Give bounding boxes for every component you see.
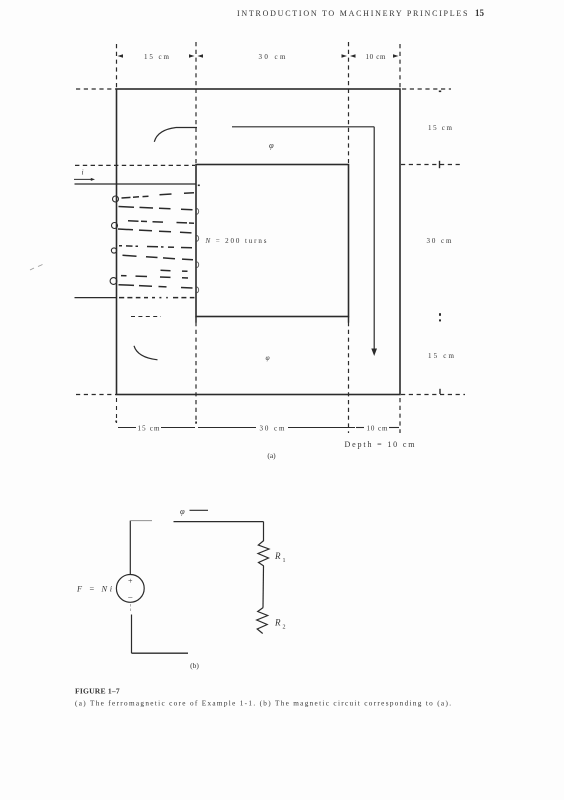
dashed extension right at window top y=164.5	[401, 164, 463, 166]
wire right down to R1	[263, 522, 265, 541]
flux path arrowhead	[371, 349, 377, 357]
hatch row 2	[119, 206, 135, 209]
coil right-side bump 3	[197, 262, 199, 268]
svg-text:FIGURE 1–7: FIGURE 1–7	[75, 687, 120, 696]
bottom dimension line segments	[118, 427, 399, 429]
svg-text:10 cm: 10 cm	[367, 425, 389, 433]
svg-text:−: −	[128, 593, 133, 603]
dashed extension line top at x=196	[195, 42, 197, 163]
dashed extension left at window bottom y=316.5	[131, 316, 161, 318]
hatch row 7	[161, 269, 171, 271]
wire top main segment	[174, 521, 264, 523]
coil turn circle 3	[111, 248, 116, 253]
svg-text:+: +	[128, 577, 133, 586]
hatch row 8	[121, 275, 127, 277]
dashed extension bottom at x=348.5	[348, 322, 350, 433]
wire source top to corner	[129, 521, 131, 575]
top dimension arrowheads	[118, 54, 399, 57]
wire R1 to R2	[262, 566, 265, 608]
coil right-side bump 2	[197, 236, 199, 242]
coil right-side bump 4	[197, 287, 199, 293]
wire bottom	[132, 652, 189, 654]
right dimension tick at y=394.5	[439, 389, 441, 394]
coil turn circle 2	[112, 223, 118, 229]
flux path arc top-left	[154, 128, 176, 142]
dashed extension line top at x=116.5	[116, 44, 118, 88]
svg-text:(a): (a)	[267, 451, 276, 460]
coil top lead wire	[75, 183, 197, 185]
reluctance R2 zigzag	[257, 608, 268, 634]
coil bottom lead wire	[75, 297, 118, 299]
right dimension tick at y=164.5	[439, 161, 441, 168]
core outer boundary	[117, 89, 401, 395]
wire faint below source	[130, 604, 132, 613]
coil hatching	[118, 193, 195, 298]
dashed extension left at window top y=165.4	[75, 164, 195, 166]
hatch row 6	[123, 254, 137, 257]
flux path top segment short	[176, 127, 197, 129]
dashed extension left at bottom edge y=394.5	[76, 394, 116, 396]
reluctance R1 zigzag	[258, 541, 269, 567]
svg-text:φ: φ	[269, 140, 274, 150]
dashed extension bottom at x=400	[399, 398, 401, 433]
current arrow	[74, 178, 93, 180]
flux arrow circuit	[190, 509, 209, 511]
right dimension tick at y=89	[439, 91, 441, 93]
flux path top segment long	[232, 126, 374, 128]
window right edge overshoot	[348, 317, 350, 323]
flux path right vertical	[373, 127, 375, 353]
dashed extension bottom at x=196	[195, 322, 197, 424]
bottom dimension end ticks	[115, 421, 117, 423]
dashed extension right at bottom edge y=394.5	[401, 394, 465, 396]
dashed extension right at top edge y=89	[402, 88, 451, 90]
svg-text:φ: φ	[266, 353, 270, 362]
hatch row 1	[122, 196, 131, 199]
svg-text:i: i	[82, 168, 84, 177]
dashed extension left at top edge y=89	[76, 88, 116, 90]
svg-text:2: 2	[283, 625, 286, 631]
flux path arc bottom-left	[134, 346, 158, 360]
svg-text:INTRODUCTION TO MACHINERY PRIN: INTRODUCTION TO MACHINERY PRINCIPLES	[237, 9, 468, 18]
svg-text:R: R	[274, 551, 281, 561]
hatch row 9	[119, 284, 135, 287]
svg-text:(b): (b)	[190, 661, 199, 670]
wire top left faint segment	[130, 520, 152, 522]
page speckle	[30, 268, 34, 270]
right dimension tick at y=316.5	[439, 313, 441, 316]
wire left up to source	[131, 615, 133, 654]
core window	[196, 165, 349, 317]
svg-text:1: 1	[283, 558, 286, 564]
svg-text:(a) The ferromagnetic core of: (a) The ferromagnetic core of Example 1-…	[75, 700, 451, 708]
svg-text:φ: φ	[180, 506, 185, 516]
svg-text:Depth = 10 cm: Depth = 10 cm	[345, 440, 416, 449]
coil turn circle 1	[113, 196, 119, 202]
svg-text:15: 15	[475, 8, 485, 18]
dashed extension line top at x=348.5	[348, 42, 350, 163]
svg-text:R: R	[274, 618, 281, 628]
hatch row 5	[119, 245, 122, 247]
hatch row 3	[128, 220, 139, 222]
dashed extension bottom at x=116.5	[116, 398, 118, 423]
dashed extension line top at x=400	[399, 44, 401, 88]
hatch row 4	[118, 228, 133, 231]
coil right-side bump 1	[197, 209, 199, 215]
mmf source circle	[116, 575, 144, 603]
hatch row 10 dashed	[119, 297, 195, 299]
svg-text:10 cm: 10 cm	[366, 53, 387, 61]
window left edge overshoot	[195, 317, 197, 323]
coil turn circle 4	[110, 278, 117, 285]
